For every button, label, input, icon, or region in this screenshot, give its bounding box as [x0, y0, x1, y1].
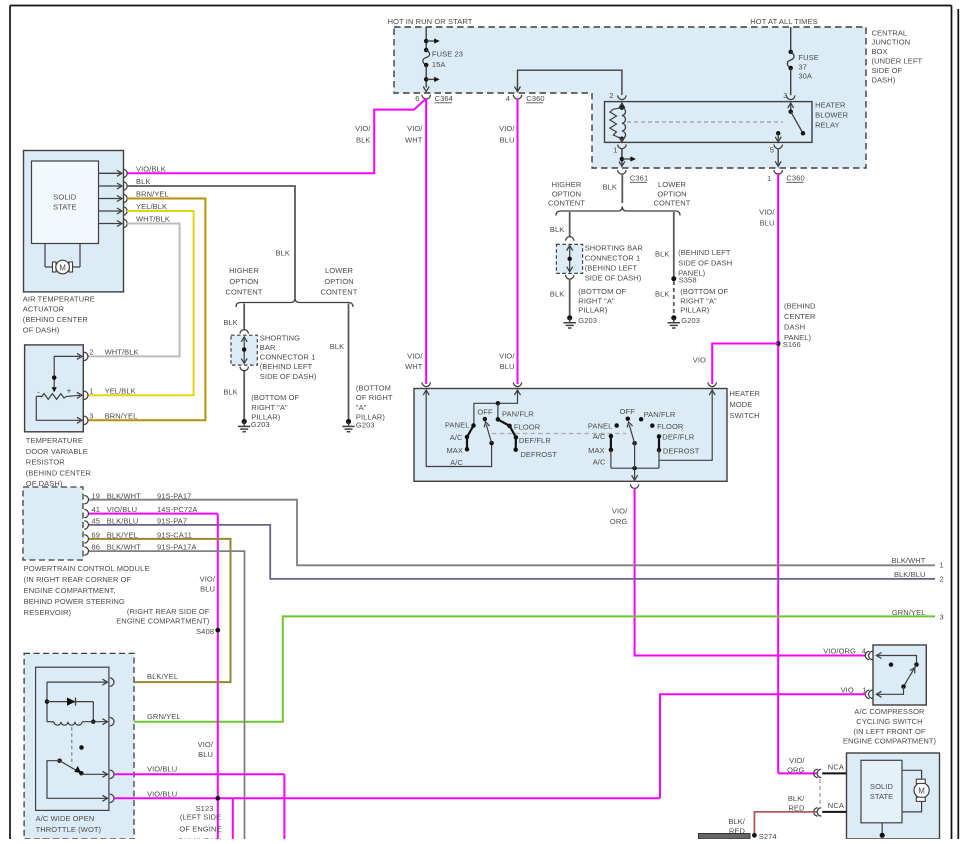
svg-text:BLK: BLK — [356, 136, 370, 145]
svg-text:POWERTRAIN CONTROL MODULE: POWERTRAIN CONTROL MODULE — [24, 564, 150, 573]
svg-text:1: 1 — [613, 146, 617, 155]
svg-text:+: + — [67, 387, 72, 396]
svg-text:RIGHT "A": RIGHT "A" — [680, 296, 717, 305]
svg-text:G203: G203 — [251, 420, 270, 429]
svg-text:(BOTTOM OF: (BOTTOM OF — [251, 393, 299, 402]
svg-text:(BEHIND CENTER: (BEHIND CENTER — [26, 468, 92, 477]
svg-text:ENGINE COMPARTMENT): ENGINE COMPARTMENT) — [116, 617, 210, 626]
svg-text:VIO/: VIO/ — [759, 208, 775, 217]
svg-text:"A": "A" — [356, 403, 367, 412]
svg-text:45: 45 — [91, 517, 100, 526]
svg-text:BLK: BLK — [550, 225, 564, 234]
svg-text:BLU: BLU — [198, 750, 213, 759]
svg-text:PANEL: PANEL — [445, 421, 470, 430]
svg-text:SWITCH: SWITCH — [730, 411, 760, 420]
svg-text:(BEHIND LEFT: (BEHIND LEFT — [260, 362, 313, 371]
svg-text:WHT/BLK: WHT/BLK — [105, 347, 139, 356]
svg-text:OF RIGHT: OF RIGHT — [356, 393, 393, 402]
svg-text:RELAY: RELAY — [815, 120, 840, 129]
svg-text:ENGINE COMPARTMENT): ENGINE COMPARTMENT) — [843, 737, 937, 746]
svg-text:G203: G203 — [681, 316, 700, 325]
svg-text:VIO/BLU: VIO/BLU — [147, 790, 177, 799]
svg-text:NCA: NCA — [828, 762, 844, 771]
svg-text:ENGINE COMPARTMENT,: ENGINE COMPARTMENT, — [24, 586, 116, 595]
svg-text:15A: 15A — [432, 60, 446, 69]
svg-text:JUNCTION: JUNCTION — [872, 38, 911, 47]
svg-text:A/C: A/C — [593, 458, 606, 467]
svg-text:(UNDER LEFT: (UNDER LEFT — [872, 57, 923, 66]
svg-text:CONNECTOR 1: CONNECTOR 1 — [260, 353, 316, 362]
svg-text:BLK/: BLK/ — [728, 817, 745, 826]
svg-text:DEF/FLR: DEF/FLR — [662, 433, 694, 442]
svg-text:OF ENGINE: OF ENGINE — [179, 824, 221, 833]
svg-text:PAN/FLR: PAN/FLR — [644, 410, 676, 419]
svg-text:ORG: ORG — [610, 517, 627, 526]
svg-text:4: 4 — [506, 94, 510, 103]
svg-text:WHT: WHT — [405, 362, 423, 371]
svg-text:WHT: WHT — [405, 136, 423, 145]
svg-text:(LEFT SIDE: (LEFT SIDE — [180, 813, 221, 822]
svg-text:(BEHIND LEFT: (BEHIND LEFT — [585, 264, 638, 273]
svg-text:WHT/BLK: WHT/BLK — [136, 215, 170, 224]
svg-text:BLK/BLU: BLK/BLU — [107, 517, 139, 526]
svg-text:BLK/YEL: BLK/YEL — [147, 672, 178, 681]
svg-text:2: 2 — [940, 575, 944, 584]
svg-text:BAR: BAR — [260, 343, 276, 352]
svg-text:VIO/: VIO/ — [198, 740, 214, 749]
svg-text:SIDE OF DASH: SIDE OF DASH — [678, 258, 732, 267]
svg-text:86: 86 — [91, 543, 100, 552]
svg-text:OPTION: OPTION — [324, 277, 353, 286]
svg-text:DEFROST: DEFROST — [520, 450, 557, 459]
svg-text:FLOOR: FLOOR — [514, 422, 541, 431]
svg-text:ORG: ORG — [787, 765, 804, 774]
svg-text:VIO/: VIO/ — [612, 506, 628, 515]
svg-text:VIO/BLK: VIO/BLK — [136, 164, 166, 173]
svg-text:HEATER: HEATER — [730, 389, 761, 398]
svg-text:OPTION: OPTION — [229, 277, 258, 286]
svg-text:STATE: STATE — [53, 202, 77, 211]
svg-text:(BEHIND LEFT: (BEHIND LEFT — [678, 248, 731, 257]
svg-text:PAN/FLR: PAN/FLR — [502, 409, 534, 418]
svg-text:BLK: BLK — [223, 387, 237, 396]
svg-text:14S-PC72A: 14S-PC72A — [157, 505, 198, 514]
svg-text:CONTENT: CONTENT — [321, 288, 358, 297]
svg-text:BLK: BLK — [655, 250, 669, 259]
svg-text:(BOTTOM OF: (BOTTOM OF — [680, 287, 728, 296]
svg-text:SHORTING BAR: SHORTING BAR — [585, 244, 644, 253]
svg-text:A/C: A/C — [450, 433, 463, 442]
svg-text:A/C COMPRESSOR: A/C COMPRESSOR — [854, 707, 925, 716]
svg-text:BLK: BLK — [223, 318, 237, 327]
svg-text:30A: 30A — [798, 72, 812, 81]
svg-text:C360: C360 — [786, 174, 804, 183]
svg-text:PANEL): PANEL) — [784, 333, 812, 342]
svg-text:BLK/WHT: BLK/WHT — [107, 491, 141, 500]
svg-text:PANEL: PANEL — [588, 422, 613, 431]
svg-text:M: M — [59, 263, 66, 272]
svg-text:VIO/BLU: VIO/BLU — [147, 764, 177, 773]
svg-text:VIO/ORG: VIO/ORG — [823, 646, 856, 655]
svg-text:SIDE OF DASH): SIDE OF DASH) — [585, 274, 642, 283]
svg-text:RIGHT "A": RIGHT "A" — [251, 403, 288, 412]
svg-text:BRN/YEL: BRN/YEL — [136, 190, 169, 199]
svg-text:5: 5 — [770, 146, 774, 155]
svg-text:BLK/: BLK/ — [788, 794, 805, 803]
svg-text:1: 1 — [940, 561, 944, 570]
svg-text:3: 3 — [940, 613, 944, 622]
svg-text:HOT IN RUN OR START: HOT IN RUN OR START — [388, 17, 473, 26]
svg-text:PILLAR): PILLAR) — [578, 306, 607, 315]
svg-text:A/C: A/C — [593, 432, 606, 441]
svg-text:FUSE: FUSE — [798, 53, 818, 62]
svg-text:4: 4 — [862, 646, 866, 655]
svg-text:DASH): DASH) — [872, 75, 896, 84]
svg-text:MODE: MODE — [730, 400, 753, 409]
svg-text:(BEHIND CENTER: (BEHIND CENTER — [23, 315, 89, 324]
svg-text:(IN RIGHT REAR CORNER OF: (IN RIGHT REAR CORNER OF — [24, 575, 132, 584]
svg-text:NCA: NCA — [828, 801, 844, 810]
svg-text:VIO/: VIO/ — [499, 352, 515, 361]
svg-text:BLK/WHT: BLK/WHT — [107, 543, 141, 552]
svg-text:BLK/BLU: BLK/BLU — [894, 570, 926, 579]
svg-text:G203: G203 — [578, 316, 597, 325]
svg-text:SIDE OF DASH): SIDE OF DASH) — [260, 372, 317, 381]
svg-text:(IN LEFT FRONT OF: (IN LEFT FRONT OF — [853, 727, 926, 736]
svg-text:M: M — [918, 787, 925, 796]
svg-text:-: - — [37, 387, 40, 396]
svg-text:DEF/FLR: DEF/FLR — [519, 436, 551, 445]
svg-text:HEATER: HEATER — [815, 101, 846, 110]
svg-text:BLK: BLK — [330, 342, 344, 351]
svg-text:FLOOR: FLOOR — [657, 422, 684, 431]
svg-text:AIR TEMPERATURE: AIR TEMPERATURE — [23, 294, 95, 303]
svg-text:BLOWER: BLOWER — [815, 110, 849, 119]
svg-text:CENTER: CENTER — [784, 312, 816, 321]
svg-text:VIO/: VIO/ — [407, 124, 423, 133]
svg-text:VIO: VIO — [693, 356, 706, 365]
svg-text:SHORTING: SHORTING — [260, 333, 300, 342]
svg-text:HOT AT ALL TIMES: HOT AT ALL TIMES — [750, 17, 817, 26]
svg-text:41: 41 — [91, 505, 100, 514]
svg-text:GRN/YEL: GRN/YEL — [147, 712, 181, 721]
svg-text:BLK/YEL: BLK/YEL — [107, 531, 138, 540]
svg-text:91S-CA11: 91S-CA11 — [157, 531, 192, 540]
svg-text:HIGHER: HIGHER — [552, 180, 582, 189]
svg-text:LOWER: LOWER — [325, 266, 353, 275]
svg-text:(RIGHT REAR SIDE OF: (RIGHT REAR SIDE OF — [127, 607, 210, 616]
svg-text:CYCLING SWITCH: CYCLING SWITCH — [856, 717, 922, 726]
svg-text:CONTENT: CONTENT — [226, 288, 263, 297]
svg-text:MAX: MAX — [588, 446, 605, 455]
svg-text:YEL/BLK: YEL/BLK — [136, 202, 167, 211]
svg-text:BLK: BLK — [655, 290, 669, 299]
svg-text:S274: S274 — [759, 832, 777, 839]
svg-text:G203: G203 — [356, 420, 375, 429]
svg-text:CONTENT: CONTENT — [548, 199, 585, 208]
svg-text:(BEHIND: (BEHIND — [784, 301, 816, 310]
svg-text:PILLAR): PILLAR) — [680, 306, 709, 315]
svg-text:BLU: BLU — [200, 585, 215, 594]
svg-text:19: 19 — [91, 491, 100, 500]
svg-text:(BOTTOM OF: (BOTTOM OF — [578, 287, 626, 296]
svg-text:OPTION: OPTION — [657, 189, 686, 198]
svg-text:S408: S408 — [196, 627, 214, 636]
svg-text:BLU: BLU — [500, 136, 515, 145]
svg-text:VIO/: VIO/ — [200, 575, 216, 584]
svg-text:BLK: BLK — [603, 183, 617, 192]
svg-text:CONNECTOR 1: CONNECTOR 1 — [585, 254, 641, 263]
svg-text:37: 37 — [798, 62, 807, 71]
svg-text:SOLID: SOLID — [870, 782, 893, 791]
svg-text:91S-PA17: 91S-PA17 — [157, 491, 191, 500]
svg-text:OFF: OFF — [477, 407, 493, 416]
svg-text:S358: S358 — [679, 276, 697, 285]
svg-text:VIO/: VIO/ — [789, 756, 805, 765]
svg-text:3: 3 — [89, 411, 93, 420]
svg-text:FUSE 23: FUSE 23 — [432, 50, 463, 59]
svg-text:VIO: VIO — [841, 686, 854, 695]
svg-text:STATE: STATE — [870, 792, 894, 801]
svg-text:DEFROST: DEFROST — [663, 447, 700, 456]
svg-text:VIO/: VIO/ — [499, 124, 515, 133]
svg-text:BLK/WHT: BLK/WHT — [891, 556, 925, 565]
svg-text:69: 69 — [91, 531, 100, 540]
svg-text:THROTTLE (WOT): THROTTLE (WOT) — [36, 825, 102, 834]
svg-text:91S-PA7: 91S-PA7 — [157, 517, 187, 526]
svg-text:BLK: BLK — [136, 177, 150, 186]
svg-text:RESISTOR: RESISTOR — [26, 458, 65, 467]
svg-text:OPTION: OPTION — [552, 189, 581, 198]
svg-text:RIGHT "A": RIGHT "A" — [578, 296, 615, 305]
svg-text:A/C: A/C — [450, 458, 463, 467]
svg-text:SOLID: SOLID — [53, 192, 76, 201]
svg-text:VIO/: VIO/ — [407, 352, 423, 361]
svg-text:OFF: OFF — [620, 407, 636, 416]
svg-text:BOX: BOX — [872, 47, 888, 56]
svg-text:BLU: BLU — [500, 362, 515, 371]
svg-text:BLK: BLK — [550, 290, 564, 299]
svg-text:2: 2 — [89, 347, 93, 356]
svg-text:YEL/BLK: YEL/BLK — [105, 386, 136, 395]
svg-text:6: 6 — [415, 94, 419, 103]
svg-text:CONTENT: CONTENT — [654, 199, 691, 208]
svg-text:2: 2 — [609, 91, 613, 100]
svg-text:C361: C361 — [630, 174, 648, 183]
svg-text:BLU: BLU — [760, 219, 775, 228]
svg-text:LOWER: LOWER — [658, 180, 686, 189]
svg-text:(BOTTOM: (BOTTOM — [356, 384, 391, 393]
svg-text:HIGHER: HIGHER — [229, 266, 259, 275]
svg-text:ACTUATOR: ACTUATOR — [23, 305, 65, 314]
svg-text:3: 3 — [783, 91, 787, 100]
svg-text:1: 1 — [862, 686, 866, 695]
svg-text:SIDE OF: SIDE OF — [872, 66, 903, 75]
svg-text:DASH: DASH — [784, 323, 805, 332]
svg-text:CENTRAL: CENTRAL — [872, 28, 908, 37]
svg-text:TEMPERATURE: TEMPERATURE — [26, 436, 83, 445]
svg-text:BRN/YEL: BRN/YEL — [105, 411, 138, 420]
svg-text:A/C WIDE OPEN: A/C WIDE OPEN — [36, 814, 95, 823]
svg-text:OF DASH): OF DASH) — [23, 326, 60, 335]
svg-text:C364: C364 — [435, 94, 453, 103]
svg-text:BEHIND POWER STEERING: BEHIND POWER STEERING — [24, 597, 125, 606]
svg-text:VIO/: VIO/ — [355, 124, 371, 133]
svg-text:91S-PA17A: 91S-PA17A — [157, 543, 197, 552]
svg-text:VIO/BLU: VIO/BLU — [107, 505, 137, 514]
svg-text:GRN/YEL: GRN/YEL — [892, 608, 926, 617]
svg-text:MAX: MAX — [446, 446, 463, 455]
svg-text:1: 1 — [89, 386, 93, 395]
svg-text:RESERVOIR): RESERVOIR) — [24, 608, 72, 617]
svg-text:1: 1 — [767, 174, 771, 183]
svg-text:DOOR VARIABLE: DOOR VARIABLE — [26, 447, 88, 456]
svg-text:C360: C360 — [526, 94, 544, 103]
svg-text:BLK: BLK — [276, 249, 290, 258]
